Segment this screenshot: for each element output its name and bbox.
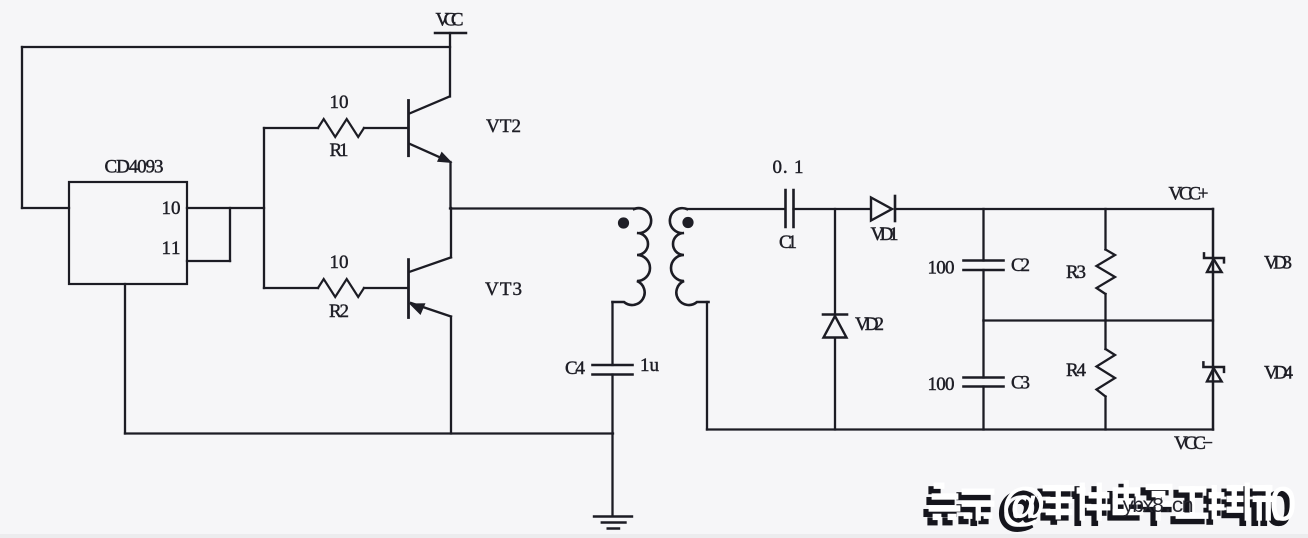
wire R2 left lead bbox=[264, 287, 318, 289]
wire right branch vertical bbox=[1212, 209, 1215, 430]
diode VD3 zener bar bbox=[1204, 253, 1224, 262]
wire R4 upper lead bbox=[1104, 321, 1106, 350]
capacitor C1 plates bbox=[786, 190, 794, 227]
resistor R2 bbox=[318, 279, 364, 297]
transistor VT2 emitter arrow bbox=[437, 152, 453, 163]
diode VD3 triangle bbox=[1207, 259, 1222, 272]
wire feedback into IC bbox=[22, 207, 69, 209]
diode VD4 triangle bbox=[1207, 368, 1222, 381]
IC U1 CD4093 box bbox=[69, 182, 187, 284]
wire pin11 stub bbox=[187, 260, 230, 262]
diode VD1 triangle bbox=[871, 198, 892, 221]
ground symbol bbox=[594, 517, 632, 529]
wire middle rail bbox=[984, 319, 1214, 321]
wire R3 lower lead bbox=[1104, 294, 1106, 321]
svg-text:VCC−: VCC− bbox=[1174, 433, 1213, 454]
svg-text:VT2: VT2 bbox=[486, 116, 521, 137]
watermark shadow copy bbox=[925, 482, 1292, 535]
wire base branch vertical bbox=[263, 128, 265, 288]
wire R4 lower lead bbox=[1104, 397, 1106, 430]
wire pin10-pin11 connector bbox=[229, 208, 231, 261]
svg-text:VD4: VD4 bbox=[1264, 363, 1294, 384]
inductor primary winding T1a bbox=[613, 208, 652, 305]
svg-text:10: 10 bbox=[330, 252, 349, 273]
svg-text:11: 11 bbox=[162, 238, 181, 259]
diode VD2 triangle bbox=[824, 316, 847, 338]
transistor VT2 collector bbox=[410, 97, 450, 114]
transistor VT3 emitter arrow bbox=[409, 303, 426, 315]
svg-text:VD3: VD3 bbox=[1264, 253, 1292, 274]
wire VT2 emitter vertical bbox=[449, 162, 451, 208]
transformer dot secondary bbox=[682, 217, 693, 228]
svg-text:100: 100 bbox=[928, 374, 955, 395]
wire C3 upper lead bbox=[982, 321, 984, 378]
wire VD2 branch lower bbox=[834, 339, 836, 430]
power VCC bar bbox=[435, 32, 466, 35]
svg-text:R3: R3 bbox=[1066, 262, 1086, 283]
transistor Q VT2 base bar bbox=[407, 101, 410, 156]
capacitor C4 plates bbox=[593, 365, 633, 375]
transistor Q VT3 base bar bbox=[407, 260, 410, 318]
wire pin10 output bbox=[187, 207, 264, 209]
wire VT3 emitter vertical bbox=[450, 317, 452, 434]
svg-text:ybx8.cn: ybx8.cn bbox=[1122, 496, 1194, 519]
wire VD2 branch upper bbox=[834, 209, 836, 314]
svg-text:10: 10 bbox=[162, 198, 181, 219]
svg-text:R4: R4 bbox=[1066, 360, 1087, 381]
transformer dot primary bbox=[618, 217, 629, 228]
svg-text:VCC+: VCC+ bbox=[1169, 184, 1209, 205]
svg-text:0. 1: 0. 1 bbox=[773, 157, 804, 178]
inductor secondary winding T1b bbox=[670, 208, 709, 305]
capacitor C2 plates bbox=[964, 261, 1004, 271]
wire VCC vertical to VT2 collector bbox=[449, 33, 451, 97]
svg-text:VCC: VCC bbox=[436, 10, 464, 31]
wire VT3 collector vertical bbox=[450, 208, 452, 257]
diode VD4 zener bar bbox=[1203, 362, 1224, 372]
watermark white copy bbox=[929, 477, 1296, 530]
svg-text:VT3: VT3 bbox=[485, 279, 522, 300]
wire C2 upper lead bbox=[982, 209, 984, 261]
wire R2 right lead bbox=[364, 287, 408, 289]
svg-text:1u: 1u bbox=[640, 355, 660, 376]
bottom grey band bbox=[0, 534, 1308, 538]
svg-text:C4: C4 bbox=[565, 358, 586, 379]
wire R1 right lead bbox=[364, 127, 408, 129]
wire C3 lower lead bbox=[982, 387, 984, 430]
transistor VT3 collector bbox=[410, 257, 451, 271]
resistor R1 bbox=[318, 119, 364, 137]
wire R3 upper lead bbox=[1104, 209, 1106, 250]
wire C4 to ground bbox=[611, 375, 613, 517]
capacitor C3 plates bbox=[964, 378, 1004, 387]
svg-text:10: 10 bbox=[330, 92, 349, 113]
svg-text:C3: C3 bbox=[1011, 373, 1030, 394]
svg-text:CD4093: CD4093 bbox=[105, 157, 164, 178]
wire secondary top to C1 bbox=[687, 208, 785, 210]
svg-text:C2: C2 bbox=[1011, 255, 1030, 276]
wire C2 lower lead bbox=[982, 270, 984, 321]
wire output node to transformer bbox=[450, 207, 634, 209]
wire primary bottom lead bbox=[611, 302, 613, 365]
diode VD1 cathode bar bbox=[894, 196, 897, 221]
svg-text:R1: R1 bbox=[330, 140, 349, 161]
svg-text:VD2: VD2 bbox=[855, 314, 884, 335]
resistor R3 bbox=[1097, 250, 1116, 295]
wire top feedback horizontal bbox=[22, 46, 450, 48]
svg-text:100: 100 bbox=[928, 258, 955, 279]
transistor VT2 emitter bbox=[409, 144, 448, 162]
diode VD2 cathode bar bbox=[823, 313, 847, 316]
wire bottom rail primary bbox=[125, 432, 613, 434]
wire IC bottom vertical bbox=[124, 284, 126, 434]
wire bottom rail secondary bbox=[707, 428, 1213, 430]
resistor R4 bbox=[1097, 349, 1116, 397]
svg-text:R2: R2 bbox=[329, 301, 349, 322]
transistor VT3 emitter bbox=[411, 303, 451, 317]
wire left feedback vertical bbox=[21, 47, 23, 208]
wire VD1 to top rail right bbox=[895, 208, 1213, 210]
wire R1 left lead bbox=[264, 127, 318, 129]
wire C1 to VD1 bbox=[794, 208, 871, 210]
svg-text:VD1: VD1 bbox=[871, 224, 899, 245]
svg-text:C1: C1 bbox=[779, 232, 797, 253]
wire secondary bottom lead bbox=[706, 302, 708, 430]
